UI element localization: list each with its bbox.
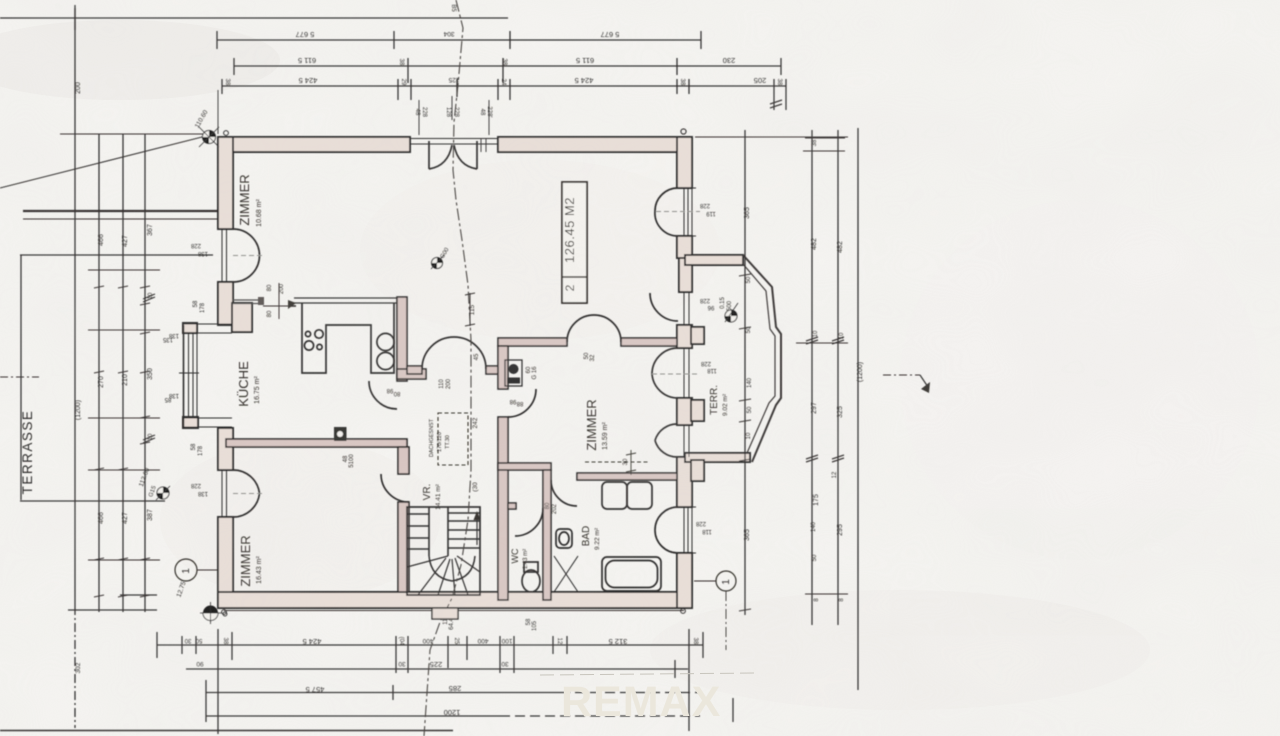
bay window cap top: [183, 323, 197, 333]
kitchen stove circle 1: [377, 333, 394, 350]
bay bottom wall: [685, 453, 750, 462]
zimmer-r west door arc: [508, 389, 536, 417]
hall nw stub I4: [397, 369, 426, 379]
wc north wall stub: [508, 503, 516, 509]
zimmer2 door arc: [381, 474, 409, 502]
right window top glazing: [684, 188, 692, 236]
appliance box zimmer-r: [505, 360, 522, 386]
ticks top: [803, 138, 845, 151]
bay win B arcs: [652, 348, 678, 398]
left bay window glazing: [189, 333, 198, 417]
dim row C: [222, 85, 786, 87]
kitchen north stub cap: [258, 297, 264, 305]
SEC:dims-bottom: [0, 609, 733, 734]
section arrow dash line: [883, 374, 920, 376]
zimmer-r small dim 30: [585, 450, 648, 475]
row3 line: [206, 715, 500, 717]
survey marker top-left corner: [194, 109, 229, 147]
wall right seg2: [677, 236, 692, 258]
section circle left: [175, 559, 218, 581]
stairs outline: [407, 507, 480, 595]
wall bottom: [218, 592, 691, 608]
diagonal to corner: [0, 136, 206, 188]
wc toilet bowl: [522, 570, 540, 592]
terrace inner line: [20, 254, 213, 256]
pillar bump 3: [691, 460, 704, 481]
entrance door arcs: [429, 145, 477, 169]
zimmer2 east wall I15b: [398, 502, 409, 592]
left bay mid tick: [179, 372, 199, 374]
wc door arc: [515, 508, 543, 536]
wc north wall I10: [498, 463, 551, 470]
svg-text:REMAX: REMAX: [561, 678, 721, 726]
SEC:walls: [183, 137, 750, 608]
terrace bar: [23, 210, 218, 212]
bottom tick row: [68, 609, 157, 611]
right window top sills: [678, 188, 696, 236]
bay window cap bottom: [183, 417, 198, 428]
appliance circle black: [509, 364, 519, 374]
left door1 arcs: [233, 229, 260, 282]
SEC:dims-left: [0, 8, 218, 728]
living wide opening arcs: [422, 337, 486, 369]
zimmer2 east wall I15a: [398, 447, 409, 474]
stairs fan lines: [407, 556, 480, 595]
entrance threshold: [410, 139, 498, 145]
bay win C glazing: [684, 424, 689, 457]
window center dash lines: [233, 212, 700, 494]
left chain verticals: [75, 8, 145, 612]
section dash-dot line vertical: [424, 0, 471, 736]
bad diagonals: [554, 556, 578, 592]
bad north wall I12: [577, 473, 677, 480]
bathtub outer: [602, 557, 661, 591]
kitchen counter top edge: [294, 298, 397, 303]
insulation hash marks: [143, 294, 155, 443]
wall right seg3: [679, 258, 692, 292]
bay win A glazing: [684, 292, 689, 325]
section arrow head: [921, 382, 930, 393]
small ticks: [94, 286, 150, 288]
m2 box: [562, 182, 587, 303]
chimney stub below bottom wall: [432, 608, 458, 619]
wall left upper: [218, 137, 233, 229]
dachgeschoss dashed rect: [438, 413, 468, 465]
stairs winder curve: [429, 556, 475, 581]
left door2 glazing: [222, 470, 227, 517]
row1 sub line: [186, 668, 688, 670]
survey marker left 112.60: [138, 467, 170, 500]
wardrobe left: [602, 482, 627, 509]
bay top wall: [685, 255, 743, 265]
right chain verticals: [745, 128, 858, 690]
wall left mid1: [218, 282, 233, 325]
wall top-left: [218, 137, 410, 152]
SEC:doors: [179, 139, 696, 554]
survey marker living G00: [431, 247, 451, 269]
left door1 glazing: [222, 229, 227, 282]
terrace left edge: [20, 255, 22, 500]
terrace bottom tick: [20, 500, 165, 502]
top border line: [0, 17, 508, 19]
ticks on 745 line: [739, 274, 751, 611]
dim row B: [234, 65, 781, 67]
extension lines to door: [218, 90, 489, 152]
kitchen south wall I2: [226, 439, 407, 447]
black box on kitchen wall: [334, 427, 347, 441]
right window2 arcs: [655, 507, 678, 553]
wc east wall I11: [543, 470, 551, 600]
row1 ticks: [157, 629, 703, 734]
left door1 sills: [218, 229, 233, 517]
survey marker bay: [725, 303, 738, 322]
stairs up arrow: [476, 515, 478, 545]
kitchen dim lines: [263, 283, 475, 326]
top-right corner circle: [681, 129, 686, 134]
SEC:dims-right: [739, 100, 928, 690]
zimmer-r north wall I7a: [498, 338, 567, 346]
corner tie line: [60, 133, 205, 135]
wall right seg6: [677, 457, 692, 507]
row1 line: [157, 644, 703, 646]
hash marks mid: [806, 337, 844, 462]
bay outline outer: [743, 255, 781, 462]
hall east wall I13b: [498, 417, 508, 600]
stairs well rails: [429, 507, 448, 556]
SEC:dims-top: [0, 5, 848, 152]
section circle right: [694, 571, 736, 650]
wc toilet tank: [524, 562, 538, 572]
stairs left flight treads: [407, 514, 429, 549]
kitchen sink circles: [305, 331, 310, 336]
wall top-right: [498, 137, 691, 152]
kitchen counter U: [302, 303, 394, 373]
wall right seg5: [677, 398, 692, 425]
left door2 arcs: [233, 470, 260, 517]
bay win C arcs: [655, 424, 678, 457]
right window top arcs: [655, 188, 678, 236]
SEC:labels: [236, 174, 729, 586]
wall right seg7: [677, 553, 692, 608]
bad sink: [556, 529, 572, 548]
right window2 sills: [678, 507, 696, 553]
survey marker bottom-left: [176, 580, 227, 624]
kitchen stove circle 2: [377, 352, 394, 369]
right window2 glazing: [684, 507, 692, 553]
bad door arc: [551, 480, 577, 506]
top right hash: [770, 100, 782, 108]
kitchen nw wall block: [232, 303, 252, 332]
kitchen east wall I3: [397, 297, 407, 381]
station tick lines: [88, 270, 160, 560]
left bay window outer edge: [183, 325, 185, 428]
zimmer-r double door arcs: [567, 315, 621, 342]
bay outline inner: [743, 264, 775, 453]
dim row A: [217, 39, 701, 41]
left bay cap lines: [183, 324, 232, 427]
bathtub inner: [606, 561, 658, 588]
row2 line: [206, 692, 560, 694]
kitchen north stub lines: [232, 300, 263, 304]
wall right seg1: [677, 137, 692, 188]
wall right seg4: [677, 325, 692, 348]
right corner tie line: [695, 136, 848, 138]
kitchen door arc: [369, 381, 397, 409]
wardrobe right: [627, 482, 652, 509]
row4 line: [0, 730, 453, 732]
appliance bar black: [507, 378, 520, 384]
hall north jamb left I5a: [407, 366, 422, 374]
pillar bump 2: [691, 400, 704, 421]
ticks bottom: [805, 593, 848, 595]
SEC:fixtures: [294, 298, 661, 595]
bay win B glazing: [684, 348, 689, 398]
pillar bump 1: [691, 327, 704, 344]
building bottom tie line: [224, 610, 684, 612]
terrace dash-dot: [0, 376, 39, 378]
hall north jamb right I5b: [486, 366, 498, 374]
wall left mid2: [218, 428, 233, 470]
stairs right flight treads: [448, 513, 480, 548]
bottom-right hint lines: [540, 673, 760, 675]
entrance door leaves: [429, 141, 477, 169]
hall east wall I13a: [498, 346, 508, 389]
zimmer-r north wall I7b: [621, 338, 677, 346]
bay win A arc: [650, 293, 678, 321]
wall left lower: [218, 517, 233, 608]
